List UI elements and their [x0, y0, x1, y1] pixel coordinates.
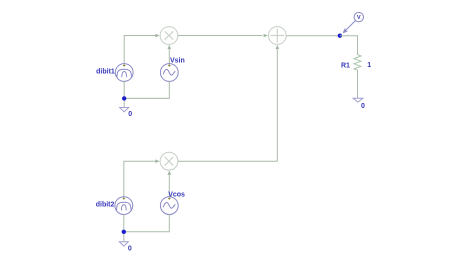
wire dibit1 bottom lead to ground node — [123, 81, 125, 107]
svg-text:0: 0 — [361, 103, 365, 110]
svg-text:1: 1 — [367, 62, 371, 69]
svg-text:dibit1: dibit1 — [96, 68, 115, 75]
Vcos sine waveform — [163, 202, 175, 208]
resistor R1 zigzag — [354, 55, 361, 71]
voltage source dibit2 circle — [115, 197, 133, 215]
dibit2 pulse waveform — [117, 202, 131, 210]
voltage source dibit1 circle — [115, 64, 133, 82]
svg-text:Vcos: Vcos — [168, 192, 185, 199]
multiplier M2 circle — [160, 152, 178, 170]
multiplier M1 x symbol — [165, 31, 173, 39]
dibit2 polarity + marker — [123, 197, 125, 199]
wire Vcos bottom lead to ground bus — [124, 215, 170, 232]
multiplier M1 circle — [160, 27, 178, 45]
arrowhead into multiplier M2 left input — [155, 159, 159, 163]
junction node dot at output net — [338, 34, 342, 38]
Vsin sine waveform — [163, 69, 175, 75]
junction node dot at dibit1/Vsin ground bus — [122, 96, 126, 100]
svg-text:0: 0 — [128, 246, 132, 253]
arrowhead into adder bottom input — [276, 45, 280, 49]
arrowhead into multiplier M1 bottom input — [168, 45, 172, 49]
dibit1 pulse waveform — [117, 69, 131, 77]
Vsin polarity + marker — [168, 64, 170, 66]
arrowhead into multiplier M1 left input — [155, 34, 159, 38]
voltage probe V circle — [354, 12, 363, 21]
arrowhead into multiplier M2 bottom input — [168, 171, 172, 175]
wire dibit2 output up-left corner to multiplier M2 left input — [124, 161, 157, 197]
multiplier M2 x symbol — [165, 157, 173, 165]
svg-text:V: V — [357, 15, 361, 21]
voltage source Vcos circle — [160, 197, 178, 215]
svg-text:Vsin: Vsin — [170, 57, 185, 64]
wire dibit2 bottom lead to ground node — [123, 215, 125, 242]
dibit1 polarity + marker — [123, 64, 125, 66]
svg-text:R1: R1 — [341, 63, 350, 70]
Vcos polarity + marker — [168, 197, 170, 199]
wire Vsin bottom lead to ground bus — [124, 81, 169, 98]
svg-text:dibit2: dibit2 — [96, 202, 115, 209]
junction node dot at dibit2/Vcos ground bus — [122, 230, 126, 234]
arrowhead into adder left input — [264, 34, 268, 38]
adder U3 circle — [268, 27, 286, 45]
wire resistor R1 bottom lead to ground — [357, 70, 359, 98]
adder U3 plus symbol — [270, 29, 284, 43]
svg-text:0: 0 — [128, 111, 132, 118]
ground 0 symbol (bottom section) — [119, 242, 128, 246]
wire Vcos top lead to multiplier M2 bottom input — [168, 174, 170, 197]
wire Vsin top lead to multiplier M1 bottom input — [168, 48, 170, 64]
ground 0 symbol (top section) — [120, 108, 129, 112]
wire multiplier M1 output to adder left input — [178, 35, 263, 37]
wire adder output to output node — [286, 35, 340, 37]
ground 0 symbol (output section) — [353, 98, 363, 102]
wire multiplier M2 output to adder bottom input — [178, 49, 277, 162]
wire output node to resistor R1 — [340, 36, 358, 55]
wire dibit1 output up-left corner to multiplier M1 left input — [124, 36, 156, 64]
voltage source Vsin circle — [160, 64, 178, 82]
voltage probe arrow to output node — [343, 21, 355, 33]
